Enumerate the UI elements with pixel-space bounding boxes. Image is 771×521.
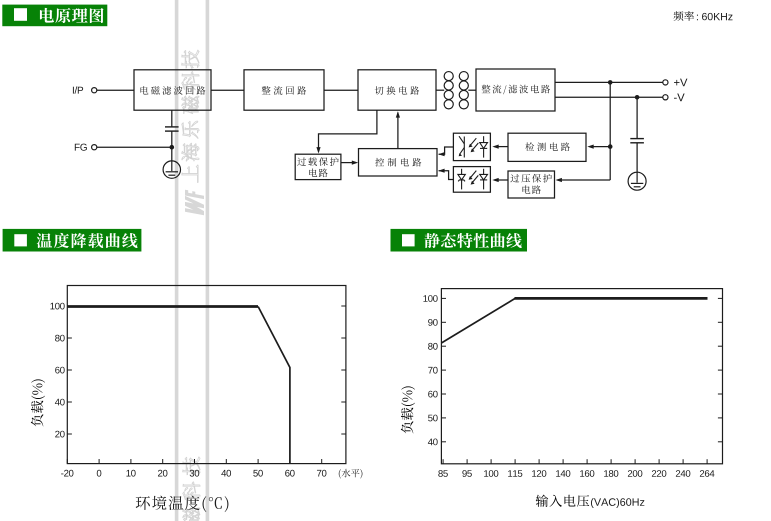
arrowhead into OVP circuit <box>556 178 562 182</box>
wire -V rail <box>555 96 663 98</box>
chart1 x-axis ticks and labels <box>67 459 321 464</box>
block: over-voltage protection 过压保护电路 <box>508 171 555 198</box>
wire optocoupler U2 to control circuit <box>439 171 454 180</box>
block: overload protection 过载保护电路 <box>295 154 341 179</box>
chart2 y-axis ticks and labels <box>441 298 722 441</box>
capacitor C2 (output) <box>630 139 644 143</box>
wire detection to optocoupler U1 <box>495 146 509 148</box>
chart1 derating curve <box>67 305 258 308</box>
block: control circuit 控制电路 <box>359 149 438 176</box>
block text 电路 (OVP) <box>522 185 530 193</box>
earth ground (output) <box>628 172 646 190</box>
title text 静态特性曲线 <box>424 233 439 248</box>
chart1 plot frame <box>67 286 346 464</box>
chart2 x-axis title 输入电压(VAC)60Hz <box>536 495 548 507</box>
block text 电磁滤波回路 <box>140 86 148 94</box>
wire to detection circuit <box>590 146 611 148</box>
label: switching frequency <box>674 11 684 21</box>
title text 电原理图 <box>40 8 54 23</box>
optocoupler U1 light arrows <box>470 138 479 151</box>
block text 控制电路 <box>375 158 384 167</box>
title text 温度降载曲线 <box>37 233 52 248</box>
wire OVP to optocoupler U2 <box>495 179 509 181</box>
block text 切换电路 <box>375 86 384 95</box>
wire transformer secondary to output rectifier <box>468 89 476 91</box>
block: output rectifier/filter 整流/滤波电路 <box>476 69 555 111</box>
junction node on -V rail <box>635 95 640 100</box>
optocoupler U2 box <box>453 167 490 193</box>
wire optocoupler U1 to control circuit <box>439 147 454 154</box>
wire Y-capacitor to FG node <box>171 131 173 147</box>
arrowhead into control circuit (from OLP) <box>352 161 358 165</box>
wire +V sense drop <box>609 82 611 180</box>
arrowhead into overload protection <box>316 147 320 153</box>
block text 过载保护 <box>297 157 306 165</box>
transformer T1 primary winding <box>444 72 453 109</box>
wire +V rail <box>555 81 663 83</box>
junction node FG <box>170 145 175 150</box>
wire FG node to earth <box>171 147 173 161</box>
block: switching circuit 切换电路 <box>358 70 436 110</box>
terminal +V <box>663 80 668 85</box>
block text 整流/滤波电路 <box>482 85 491 93</box>
arrowhead into optocoupler U2 <box>492 178 498 182</box>
wire to OVP circuit <box>558 179 611 181</box>
chart2 plot frame <box>441 289 722 464</box>
block text 检测电路 <box>525 142 534 151</box>
earth ground (input) <box>163 161 180 178</box>
wire I/P to EMI filter <box>97 89 134 91</box>
junction node on +V rail <box>608 80 613 85</box>
arrowhead into optocoupler U1 <box>492 145 498 149</box>
chart2 characteristic curve <box>441 298 515 343</box>
block text 整流回路 <box>262 86 271 94</box>
arrowhead into switching circuit <box>396 111 400 117</box>
wire overload protection to control <box>341 162 356 164</box>
arrowhead into control circuit (from U1) <box>438 152 444 156</box>
terminal -V <box>663 95 668 100</box>
block text 电路 (OLP) <box>309 168 317 176</box>
chart1 axis note (水平) <box>339 469 341 479</box>
optocoupler U1 box <box>453 133 490 160</box>
chart1 y-axis ticks and labels <box>67 306 346 434</box>
label -V <box>674 97 677 100</box>
arrowhead into detection circuit <box>587 145 593 149</box>
terminal FG <box>92 145 97 150</box>
port FG label <box>75 144 80 151</box>
terminal I/P <box>92 88 97 93</box>
wire EMI filter to rectifier <box>211 89 244 91</box>
wire rectifier to switcher <box>324 89 358 91</box>
chart1 y-axis title 负载(%) <box>31 379 45 426</box>
chart2 x-axis ticks and labels <box>443 459 707 464</box>
block text 过压保护 <box>510 174 519 182</box>
wire switcher to transformer primary <box>436 89 444 91</box>
wire capacitor to earth <box>636 143 638 173</box>
wire control to switching circuit <box>397 113 399 149</box>
arrowhead into control circuit (from U2) <box>438 169 444 173</box>
chart2 y-axis title 负载(%) <box>401 386 415 433</box>
wire FG <box>97 146 172 148</box>
transformer T1 secondary winding <box>459 72 468 109</box>
label +V <box>674 80 679 85</box>
wire switching circuit to overload protection <box>319 110 377 151</box>
wire -V to output capacitor <box>636 97 638 138</box>
optocoupler U2 light arrows <box>470 171 479 184</box>
block: rectifier 整流回路 <box>244 70 324 110</box>
port I/P label <box>72 87 75 94</box>
block: detection circuit 检测电路 <box>508 133 586 161</box>
chart1 x-axis title 环境温度(℃) <box>136 496 150 510</box>
title bar: schematic section <box>2 5 107 27</box>
capacitor C1 (Y-cap) <box>165 127 179 131</box>
title bar: derating curve section <box>3 229 142 252</box>
junction node sense/detect <box>608 144 613 149</box>
title bar: static characteristic section <box>391 229 528 252</box>
block: EMI filter 电磁滤波回路 <box>134 70 211 110</box>
wire EMI filter to Y-capacitor <box>171 110 173 127</box>
